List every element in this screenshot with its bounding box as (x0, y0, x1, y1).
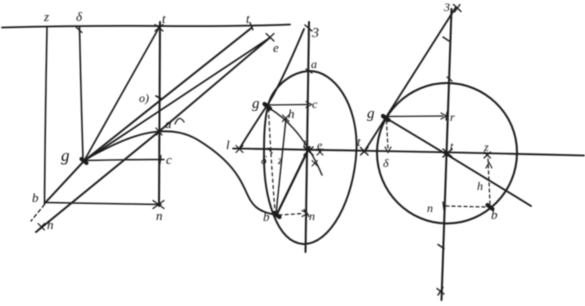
dome curve from g over a descending to middle b (86, 131, 277, 215)
dashed vertical g to b (middle) (269, 109, 276, 212)
svg-text:t: t (162, 11, 166, 26)
dashed horizontal n to b (right) (446, 206, 486, 207)
tick at circle top crossing (447, 77, 452, 81)
svg-text:δ: δ (261, 153, 267, 167)
svg-text:e: e (273, 40, 279, 55)
arrowhead at delta (right) (385, 147, 391, 153)
tick at t2 (250, 23, 253, 31)
line D2 h through a to e (36, 38, 270, 233)
svg-text:t: t (450, 139, 454, 153)
cross at t1 (155, 25, 163, 32)
svg-text:c: c (166, 152, 172, 167)
line b to t center (middle) (277, 147, 310, 215)
tick at n (right) (443, 202, 444, 210)
right vertical axis (442, 9, 452, 300)
svg-text:h: h (288, 106, 295, 121)
curved line g through h to below e (269, 108, 322, 175)
svg-text:l: l (226, 137, 230, 152)
horizontal line b to n (45, 203, 161, 205)
svg-text:δ: δ (383, 156, 389, 170)
svg-text:r: r (450, 110, 455, 124)
junction dot g (82, 159, 87, 163)
e cross (middle) (317, 149, 323, 155)
line D3 g to e (84, 39, 268, 161)
svg-text:o): o) (139, 91, 149, 105)
cross at n (left) (153, 201, 164, 209)
svg-text:b: b (491, 207, 498, 222)
svg-text:h: h (47, 217, 54, 232)
vertical line under z (45, 27, 48, 204)
line b to h (middle) (276, 119, 286, 215)
middle vertical axis m to bottom (306, 22, 310, 252)
right figure circle (377, 83, 517, 224)
dashed vertical z to b (right) (488, 159, 490, 204)
dashed tail below b (31, 205, 45, 222)
tick at n (middle) (304, 210, 309, 217)
horizontal g to c (middle) (268, 104, 308, 107)
svg-text:t: t (246, 11, 250, 26)
arrowhead at r (441, 113, 447, 119)
svg-text:a: a (311, 57, 317, 71)
cross t between figures (361, 148, 369, 156)
tick at c (160, 156, 161, 164)
horizontal g to r (386, 115, 443, 118)
g dot (right) (383, 116, 389, 120)
center cross t (right) (443, 149, 452, 157)
svg-text:n: n (427, 201, 433, 215)
b dot (right) (488, 205, 493, 209)
b dot (middle) (274, 213, 280, 217)
svg-text:g: g (252, 96, 260, 112)
svg-text:g: g (61, 146, 70, 165)
cross at right axis top (454, 5, 462, 13)
center cross t (middle) (304, 147, 313, 155)
svg-text:e: e (317, 138, 323, 152)
svg-text:b: b (32, 190, 39, 205)
cross at e (266, 34, 274, 42)
cross at h (middle) (283, 115, 290, 122)
steep line g to t1 (84, 29, 159, 162)
cross at a point (156, 128, 162, 135)
left figure top horizontal line (2, 25, 290, 28)
svg-text:z: z (43, 9, 49, 24)
line D1 b through g to t2 (45, 28, 252, 204)
arrowhead up at h (right) (486, 163, 492, 169)
svg-text:a: a (165, 116, 172, 131)
tick on right axis below circle (438, 245, 444, 249)
tick on right axis upper (443, 37, 449, 41)
g dot (middle) (265, 104, 271, 109)
tick at m point (156, 96, 162, 99)
arrowhead at n (middle) (302, 211, 308, 217)
middle figure oval (264, 71, 357, 244)
cross at top of middle axis (305, 25, 312, 31)
svg-text:c: c (312, 97, 318, 111)
long horizontal axis through oval and circle (233, 149, 584, 156)
svg-text:t: t (357, 134, 361, 149)
arc mark after a (175, 118, 184, 124)
svg-text:δ: δ (76, 9, 83, 24)
svg-text:g: g (367, 106, 375, 122)
svg-text:3: 3 (443, 0, 450, 14)
svg-text:h: h (477, 179, 483, 193)
cross at l (236, 146, 243, 153)
secant line g through center beyond circle (385, 118, 531, 207)
cross at z (right) (484, 152, 491, 158)
svg-text:b: b (263, 209, 270, 224)
dashed horizontal b to n (middle) (279, 214, 303, 216)
horizontal line g to c (84, 160, 164, 161)
tangent line from top through g to t cross (364, 7, 456, 152)
vertical line t1 to n (159, 22, 160, 206)
tick at delta crossing (268, 148, 272, 153)
tick at r (446, 112, 447, 120)
svg-text:n: n (156, 208, 163, 223)
small x below center (middle) (312, 161, 318, 167)
cross at right axis bottom (437, 288, 444, 296)
tick at a crossing (306, 69, 312, 73)
svg-text:z: z (277, 153, 283, 167)
tangent line l through g to top (240, 29, 305, 149)
svg-text:n: n (309, 209, 315, 223)
tick at top of delta vertical (76, 27, 82, 33)
cross x at h (38, 224, 45, 231)
svg-text:3: 3 (311, 26, 319, 41)
vertical line under delta (80, 27, 84, 159)
dashed vertical g to delta (right) (387, 121, 389, 150)
arrowhead at c (middle) (306, 102, 312, 108)
